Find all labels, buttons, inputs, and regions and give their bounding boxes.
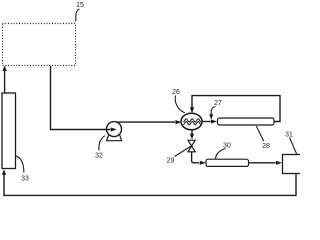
leader 27 with arrow xyxy=(211,107,215,115)
svg-text:31: 31 xyxy=(285,132,293,139)
condenser 30 xyxy=(206,159,249,166)
arrow into valve top xyxy=(190,134,194,140)
arrow down into HX top xyxy=(190,107,194,113)
pipe evaporator28 return loop to HX26 top xyxy=(192,96,280,122)
svg-text:28: 28 xyxy=(262,143,270,150)
pump 32 body xyxy=(107,122,122,137)
svg-text:32: 32 xyxy=(95,153,103,160)
pump 32 inlet line and arrow inside body xyxy=(106,129,111,131)
pipe HX26 bottom to valve29 xyxy=(191,130,193,135)
leader 33 xyxy=(16,156,24,173)
leader 28 xyxy=(256,126,264,141)
arrow into condenser 30 xyxy=(200,161,206,165)
leader 30 xyxy=(216,149,226,159)
pipe enclosure15 to pump32 xyxy=(51,66,107,130)
dashed enclosure 15 xyxy=(3,24,76,66)
arrow up into vessel 33 xyxy=(2,169,6,175)
heat exchanger 26 body xyxy=(181,113,202,130)
pipe vessel33 to enclosure15 xyxy=(4,70,6,94)
pump 32 stand xyxy=(107,133,122,141)
arrow into unit 31 xyxy=(276,161,282,165)
arrow into evaporator 28 xyxy=(211,119,217,123)
expansion valve 29 xyxy=(188,140,195,152)
pipe pump32 to HX26 xyxy=(116,121,175,123)
unit 31 xyxy=(283,155,302,174)
svg-text:29: 29 xyxy=(167,158,175,165)
leader 26 xyxy=(175,96,185,113)
evaporator 28 xyxy=(218,118,275,125)
vessel 33 xyxy=(2,93,16,169)
svg-text:15: 15 xyxy=(76,2,84,9)
leader 29 xyxy=(175,147,191,157)
svg-text:26: 26 xyxy=(172,89,180,96)
leader 32 xyxy=(99,136,105,151)
leader 15 xyxy=(76,9,80,22)
pipe HX26 to evaporator28 xyxy=(202,121,211,123)
pipe valve29 to condenser30 xyxy=(192,152,199,163)
return pipe unit31 to vessel33 xyxy=(4,174,296,196)
heat exchanger 26 coil upper xyxy=(183,119,201,122)
pipe condenser30 to unit31 xyxy=(249,162,276,164)
svg-text:27: 27 xyxy=(214,100,222,107)
heat exchanger 26 coil lower xyxy=(183,122,201,125)
svg-text:33: 33 xyxy=(21,176,29,183)
arrow up into enclosure 15 xyxy=(3,65,7,71)
leader 31 xyxy=(290,138,297,155)
arrow into HX left xyxy=(175,120,181,124)
